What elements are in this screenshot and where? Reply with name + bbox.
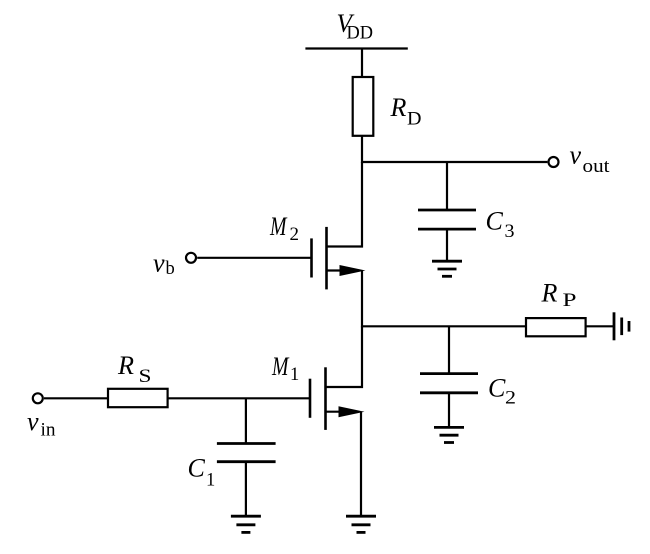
wire M2 source with arrow [327,269,359,271]
ground under C1 [231,516,261,532]
capacitor C1 [217,444,276,462]
svg-text:C: C [486,207,504,236]
wire RP to right ground [586,325,614,327]
wire vb to M2 gate [197,257,311,259]
resistor RS [108,389,168,407]
svg-text:S: S [139,367,152,387]
wire VDD bar to RD top [361,49,363,78]
svg-text:M: M [271,352,289,381]
label vb [153,249,175,280]
ground under C2 [434,427,464,442]
svg-text:2: 2 [505,388,516,408]
svg-text:C: C [188,454,206,483]
svg-text:1: 1 [290,365,299,385]
svg-text:out: out [583,157,611,177]
svg-text:C: C [488,373,506,402]
terminal vb [186,253,196,263]
terminal vout [549,157,559,167]
label M2 [269,212,299,245]
wire RS to M1 gate [168,397,310,399]
capacitor C3 [418,210,476,229]
ground right (rotated) [614,312,629,340]
label RD [390,93,422,130]
svg-text:D: D [407,110,422,130]
wire vin to RS [44,397,108,399]
ground under M1 [346,516,376,532]
resistor RP [526,318,586,336]
label C3 [486,207,515,243]
svg-text:2: 2 [290,225,300,245]
label C1 [188,454,216,491]
svg-text:M: M [269,212,287,241]
svg-text:DD: DD [347,24,374,44]
label vin [27,407,56,441]
label VDD [337,9,374,44]
wire M2 source down to mid node [361,271,363,328]
svg-text:P: P [563,291,577,311]
resistor RD [353,77,374,136]
wire RD bottom to output node [361,136,363,163]
supply rail VDD bar [305,47,407,49]
svg-text:v: v [153,249,165,278]
label C2 [488,373,516,408]
ground under C3 [432,261,462,276]
label vout [570,141,611,178]
terminal vin [33,393,43,403]
svg-text:v: v [27,407,39,436]
wire M1 source down to ground [360,412,362,517]
svg-text:R: R [390,93,407,122]
wire C2 to ground [448,393,450,428]
wire M1 drain up to mid node [326,326,363,387]
wire mid node horizontal [362,325,526,327]
wire M2 drain [327,162,363,247]
wire gate node to C1 [245,398,247,443]
svg-text:1: 1 [206,471,215,491]
svg-text:R: R [117,351,134,380]
wire C3 to ground [446,229,448,261]
transistor M2 [312,227,327,290]
svg-text:R: R [541,279,558,308]
svg-text:3: 3 [505,222,515,242]
svg-text:b: b [166,259,175,279]
label RP [541,279,577,312]
transistor M1 [310,367,326,430]
svg-text:v: v [570,141,582,170]
label M1 [271,352,299,385]
wire C1 to ground [245,462,247,517]
wire mid node to C2 [448,326,450,373]
wire node to C3 top [446,162,448,210]
capacitor C2 [420,374,478,393]
wire M1 source with arrow [326,411,358,413]
svg-text:in: in [41,421,56,441]
wire output node horizontal to vout [362,161,547,163]
label RS [117,351,152,387]
